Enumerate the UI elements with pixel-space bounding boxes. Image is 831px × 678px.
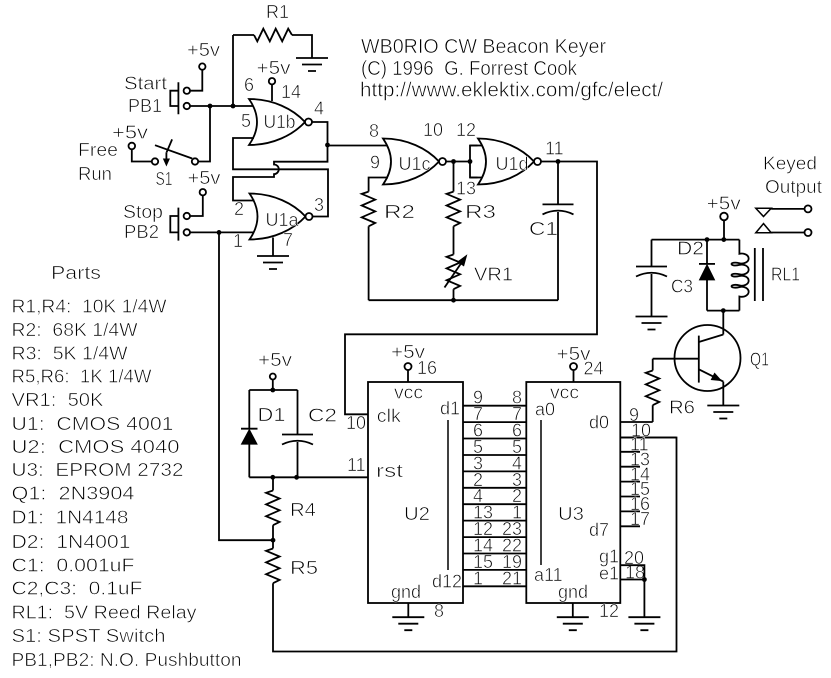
svg-text:+5v: +5v [188,168,221,188]
svg-text:U1d: U1d [496,154,529,174]
svg-text:RL1: RL1 [771,265,800,285]
wire U1b output [313,122,389,146]
svg-text:8: 8 [434,601,444,621]
wire U3 gnd [572,603,574,617]
svg-text:C1: C1 [529,219,558,239]
svg-text:Start: Start [124,74,167,94]
diode D2 [699,263,715,265]
svg-text:10: 10 [346,413,366,433]
wire C2 top [297,390,299,435]
U1d input bracket [470,146,478,178]
wire R3 top [453,162,455,192]
wire R4 bottom [272,525,274,540]
svg-text:a0: a0 [535,400,555,420]
svg-text:d0: d0 [589,413,609,433]
svg-text:(C) 1996 G. Forrest Cook: (C) 1996 G. Forrest Cook [361,58,578,80]
wire +5v to PB2 [190,195,203,216]
svg-text:U1: CMOS 4001: U1: CMOS 4001 [12,414,174,434]
output bubble U1d [534,158,541,165]
svg-text:Keyed: Keyed [763,154,817,174]
wire R1 left [233,34,254,36]
wire U2 vcc [407,370,409,382]
svg-text:WB0RIO CW Beacon Keyer: WB0RIO CW Beacon Keyer [361,36,606,58]
svg-text:12: 12 [456,120,476,140]
svg-text:U2: CMOS 4040: U2: CMOS 4040 [12,437,180,457]
svg-text:U2: U2 [404,504,430,524]
wire R5 bottom to bottom rail [273,438,677,652]
svg-text:gnd: gnd [391,582,421,602]
wire U1a pin7 to ground [272,238,274,257]
Q1 collector stroke [699,335,724,343]
op-amp U1a NOR gate [250,194,306,240]
wire U2 pin 2 to U3 pin 3 [463,487,526,489]
wire D1 bottom [248,444,250,477]
wire U2 pin 5 to U3 pin 5 [463,454,526,456]
potentiometer VR1 [447,255,461,290]
svg-text:Run: Run [78,164,112,184]
svg-text:11: 11 [347,455,366,475]
pushbutton PB2 actuator [170,208,178,241]
node U1d input bracket [468,159,473,164]
output bubble U1c [439,158,446,165]
wire PB2 to U1a pin1 [190,231,255,233]
svg-text:1: 1 [233,231,243,251]
node +5v relay rail [721,237,726,242]
svg-text:1: 1 [473,568,483,588]
wire Q1 base [653,358,699,360]
wire U3 pin9 to R6 [621,421,653,423]
node D2 top [705,237,710,242]
wire R3 to VR1 [453,226,455,254]
wire relay bottom rail [707,310,739,312]
svg-text:Q1: Q1 [750,350,769,370]
svg-text:R5,R6: 1K 1/4W: R5,R6: 1K 1/4W [12,367,152,387]
svg-text:2: 2 [234,199,244,219]
svg-text:d1: d1 [440,399,460,419]
relay contact top [771,208,804,210]
svg-text:R3: R3 [465,202,496,222]
svg-text:R1,R4: 10K 1/4W: R1,R4: 10K 1/4W [12,297,167,317]
stub U3 pin 13 [621,466,641,468]
wire U2 gnd [407,603,409,617]
svg-text:Output: Output [765,177,822,197]
svg-text:RL1: 5V Reed Relay: RL1: 5V Reed Relay [12,603,197,623]
wire U1c out to U1d in [447,161,471,163]
wire U3 pin10 to bottom rail [621,437,677,439]
wire Q1 emitter to ground [722,382,724,406]
op-amp U1d NOR gate [478,139,534,185]
svg-text:3: 3 [314,195,324,215]
wire R1 right [292,35,312,58]
wire D1C2 top rail [249,389,297,391]
transistor Q1 circle [675,325,741,391]
output bubble U1b [305,119,312,126]
wire rst rail [249,476,368,478]
wire U2 pin 15 to U3 pin 19 [463,569,526,571]
+5v terminal PB2 [200,189,206,195]
wire U2 pin 14 to U3 pin 22 [463,553,526,555]
ground U1a pin7 [257,256,289,269]
resistor R1 [254,29,292,42]
svg-text:PB1: PB1 [128,96,162,116]
relay core [754,248,756,301]
svg-text:C3: C3 [671,277,693,297]
resistor R2 [362,192,376,227]
svg-text:9: 9 [370,153,380,173]
pushbutton PB2 contacts [184,213,190,219]
stub U3 pin 11 [621,451,641,453]
svg-text:+5v: +5v [187,40,220,60]
svg-text:+5v: +5v [258,350,292,370]
svg-text:14: 14 [281,82,301,102]
IC U2 CMOS 4040 [368,382,463,603]
wire e1 to ground [643,580,645,618]
wire U1d output [345,162,597,415]
ground Q1 [707,406,739,419]
svg-text:+5v: +5v [257,58,291,78]
svg-text:8: 8 [369,121,379,141]
resistor R5 [266,549,280,584]
wire U1b out to U1a pin2 with hop [233,145,328,201]
svg-text:U1c: U1c [399,154,431,174]
stub U3 pin 16 [621,510,641,512]
svg-text:U1a: U1a [266,210,300,230]
wire R2 bottom [368,226,370,300]
Q1 emitter stroke [699,369,724,381]
wire C2 bottom [297,442,299,477]
wire R5 top [272,540,274,548]
diode D1 [241,428,258,430]
svg-text:R5: R5 [290,558,318,578]
op-amp U1c NOR gate [383,139,439,185]
svg-text:6: 6 [244,75,254,95]
wire C3 bottom [651,274,653,317]
svg-text:C2,C3: 0.1uF: C2,C3: 0.1uF [12,579,143,599]
svg-text:16: 16 [417,358,437,378]
svg-text:R6: R6 [669,398,695,418]
+5v terminal relay [720,213,728,221]
svg-text:D1: D1 [258,405,286,425]
svg-text:clk: clk [377,406,402,426]
relay coil RL1 [732,240,749,311]
+5v terminal U1b pin14 [269,78,275,84]
svg-text:R4: R4 [290,500,316,520]
node PB2 [217,230,222,235]
+5v terminal U2 pin16 [405,363,412,370]
svg-text:http://www.eklektix.com/gfc/el: http://www.eklektix.com/gfc/elect/ [360,80,663,102]
U2 data range line [447,420,449,570]
wire U1d in13 [470,177,484,179]
wire U1d in12 [470,145,484,147]
pushbutton PB1 actuator [170,82,178,114]
node D1 bottom [270,475,275,480]
wire PB2 node down to R4-R5 node [219,232,273,540]
svg-text:Parts: Parts [51,263,101,283]
svg-text:d12: d12 [432,572,462,592]
capacitor C3 [636,266,667,268]
wire C3 top [651,240,653,267]
svg-text:U1b: U1b [264,112,296,132]
svg-text:24: 24 [584,359,604,379]
wire D1 top [248,390,250,429]
node C2 bottom [294,475,299,480]
svg-text:Q1: 2N3904: Q1: 2N3904 [12,484,135,504]
wire C1 bottom [557,212,559,300]
pushbutton PB1 contacts [184,88,190,94]
svg-text:C1: 0.001uF: C1: 0.001uF [12,556,135,576]
op-amp U1b NOR gate [249,99,305,145]
stub U3 pin 17 [621,525,641,527]
ground U2 [392,617,424,630]
svg-text:C2: C2 [308,406,337,426]
svg-text:Free: Free [78,140,118,160]
stub U3 pin 14 [621,481,641,483]
wire S1 to PB1 node [198,106,210,162]
+5v terminal S1 [129,143,136,150]
wire Q1 collector [722,311,724,335]
wire +5v to PB1 [190,70,202,91]
Q1 base bar [698,336,700,383]
svg-text:rst: rst [376,461,403,481]
svg-text:10: 10 [423,120,443,140]
node PB1-S1 [208,104,213,109]
svg-text:21: 21 [502,568,522,588]
wire U2 pin 4 to U3 pin 2 [463,503,526,505]
wire U2 pin 9 to U3 pin 8 [463,405,526,407]
+5v terminal U3 pin24 [570,363,577,370]
svg-text:Stop: Stop [123,202,163,222]
wire U1c pin9 to R2 [369,178,388,192]
wire R1 to PB1 node [232,35,234,106]
wire U2 pin 1 to U3 pin 21 [463,585,526,587]
switch S1 actuator arrow [165,152,167,159]
wire R6 bottom [652,405,654,422]
ground C3 [636,317,668,330]
svg-text:PB1,PB2: N.O. Pushbutton: PB1,PB2: N.O. Pushbutton [12,650,242,670]
node C1 branch [556,159,561,164]
stub U3 pin 15 [621,496,641,498]
wire PB1 to U1b pin6 [190,105,254,107]
svg-text:D1: 1N4148: D1: 1N4148 [12,508,129,528]
U3 addr range line [540,420,542,565]
svg-text:5: 5 [241,111,251,131]
wire C1 top [557,162,559,205]
svg-text:4: 4 [314,99,324,119]
resistor R3 [447,192,461,227]
wire U2 pin 7 to U3 pin 7 [463,421,526,423]
svg-text:e1: e1 [599,564,619,584]
resistor R6 [646,371,660,406]
svg-text:d7: d7 [589,520,609,540]
svg-text:gnd: gnd [558,582,588,602]
wire +5v to S1 [132,149,152,161]
node +5v rail [270,388,275,393]
wire U3 vcc [573,370,575,382]
svg-text:vcc: vcc [394,383,423,403]
wire U1a out to U1b pin5 [233,138,328,217]
wire U2 pin 6 to U3 pin 6 [463,438,526,440]
svg-text:VR1: 50K: VR1: 50K [12,390,104,410]
switch S1 arm [155,145,192,158]
svg-text:13: 13 [456,179,476,199]
wire oscillator bottom rail [369,299,558,301]
node VR1 bottom [451,298,456,303]
wire pin14 [271,84,273,101]
node R4-R5 [271,538,276,543]
ground e1 g1 [628,617,660,630]
svg-text:R1: R1 [266,2,289,22]
capacitor C2 [282,434,313,436]
ground R1 [296,58,328,71]
wire R6 top [652,359,654,371]
switch S1 actuator slash [167,139,173,152]
svg-text:D2: D2 [677,239,704,259]
wire rst node to R4 [272,477,274,490]
svg-text:D2: 1N4001: D2: 1N4001 [12,532,131,552]
svg-text:7: 7 [283,230,293,250]
svg-text:11: 11 [545,139,564,159]
wire g1 e1 tie [621,565,645,579]
IC U3 EPROM 2732 [526,382,620,603]
VR1 arrow [445,262,463,288]
relay contact bottom [771,232,804,234]
wire +5v to relay rail [723,220,725,239]
switch S1 contacts [152,158,158,164]
+5v terminal D1C2 [270,374,276,380]
node R3 branch [451,159,456,164]
node U1b out [325,143,330,148]
wire +5v to rail [272,380,274,391]
+5v terminal PB1 [199,63,205,69]
node e1 [642,577,647,582]
svg-text:12: 12 [599,601,619,621]
svg-text:U3: U3 [558,504,584,524]
wire U2 pin 12 to U3 pin 23 [463,536,526,538]
svg-text:S1: SPST Switch: S1: SPST Switch [12,626,166,646]
svg-text:R2: R2 [384,202,415,222]
output bubble U1a [306,213,313,220]
svg-text:S1: S1 [156,169,173,189]
resistor R4 [266,491,280,526]
wire relay top rail [652,239,740,241]
svg-text:R2: 68K 1/4W: R2: 68K 1/4W [12,320,138,340]
wire U2 pin 3 to U3 pin 4 [463,470,526,472]
svg-text:+5v: +5v [112,123,148,143]
wire D2 top [706,240,708,264]
wire U2 pin 13 to U3 pin 1 [463,520,526,522]
svg-text:+5v: +5v [707,194,741,214]
svg-text:R3: 5K 1/4W: R3: 5K 1/4W [12,344,128,364]
svg-text:PB2: PB2 [124,222,159,242]
capacitor C1 [543,203,574,205]
Q1 emitter arrow [711,373,721,380]
svg-text:U3: EPROM 2732: U3: EPROM 2732 [12,460,184,480]
ground U3 [557,617,589,630]
svg-text:VR1: VR1 [474,265,513,285]
wire D2 bottom [706,280,708,311]
node collector [721,308,726,313]
wire VR1 bottom [453,289,455,300]
node PB1-R1 [231,104,236,109]
